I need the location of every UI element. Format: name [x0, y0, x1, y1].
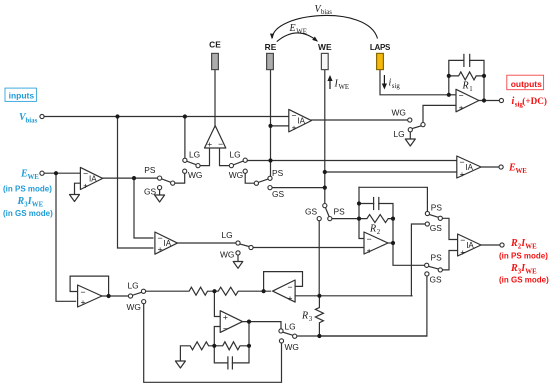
- svg-text:PS: PS: [144, 165, 156, 175]
- svg-text:LG: LG: [222, 230, 233, 240]
- svg-text:(in GS mode): (in GS mode): [3, 209, 53, 218]
- svg-text:−: −: [83, 169, 88, 179]
- svg-text:LG: LG: [285, 322, 296, 332]
- svg-text:LG: LG: [128, 280, 139, 290]
- svg-text:+: +: [80, 297, 85, 307]
- svg-text:LAPS: LAPS: [370, 43, 391, 52]
- svg-text:R: R: [462, 81, 469, 92]
- svg-text:LG: LG: [394, 129, 405, 139]
- svg-text:−: −: [459, 90, 464, 100]
- svg-text:(+DC): (+DC): [522, 96, 547, 106]
- svg-text:LG: LG: [189, 149, 200, 159]
- svg-text:LG: LG: [230, 149, 241, 159]
- svg-text:R: R: [301, 310, 308, 321]
- svg-text:IA: IA: [297, 117, 305, 126]
- svg-text:(in GS mode): (in GS mode): [499, 275, 549, 284]
- svg-text:−: −: [367, 234, 372, 244]
- svg-text:WE: WE: [318, 42, 332, 52]
- svg-text:WG: WG: [229, 170, 243, 180]
- svg-text:+: +: [291, 123, 296, 133]
- svg-text:PS: PS: [272, 168, 284, 178]
- svg-text:WE: WE: [525, 268, 537, 275]
- svg-text:R: R: [17, 196, 25, 207]
- svg-text:(in PS mode): (in PS mode): [499, 251, 548, 260]
- svg-text:−: −: [158, 233, 163, 243]
- svg-text:R: R: [510, 263, 518, 274]
- svg-text:−: −: [460, 235, 465, 245]
- svg-text:GS: GS: [305, 206, 318, 216]
- svg-text:WG: WG: [285, 342, 299, 352]
- svg-text:+: +: [287, 293, 292, 303]
- svg-text:outputs: outputs: [511, 79, 542, 89]
- svg-text:bias: bias: [26, 118, 38, 125]
- svg-text:bias: bias: [321, 9, 332, 16]
- svg-text:GS: GS: [430, 223, 443, 233]
- svg-text:+: +: [207, 139, 212, 149]
- svg-text:CE: CE: [209, 40, 221, 50]
- svg-text:(in PS mode): (in PS mode): [3, 184, 52, 193]
- svg-text:IA: IA: [465, 163, 473, 172]
- svg-text:sig: sig: [392, 83, 401, 90]
- svg-text:R: R: [369, 224, 376, 235]
- svg-text:inputs: inputs: [9, 91, 35, 101]
- svg-text:WE: WE: [32, 202, 44, 209]
- svg-text:WG: WG: [220, 249, 234, 259]
- svg-text:RE: RE: [265, 42, 277, 52]
- svg-text:PS: PS: [334, 206, 346, 216]
- svg-text:WE: WE: [296, 28, 307, 35]
- svg-text:WE: WE: [339, 84, 350, 91]
- svg-text:WG: WG: [392, 107, 406, 117]
- svg-text:IA: IA: [164, 239, 172, 248]
- svg-text:WG: WG: [188, 170, 202, 180]
- svg-text:E: E: [289, 23, 296, 34]
- svg-text:1: 1: [469, 86, 472, 93]
- svg-text:−: −: [223, 323, 228, 333]
- svg-text:WE: WE: [28, 174, 40, 181]
- svg-text:GS: GS: [272, 189, 285, 199]
- svg-text:WE: WE: [516, 168, 528, 175]
- svg-text:GS: GS: [430, 274, 443, 284]
- svg-text:GS: GS: [144, 187, 157, 197]
- svg-text:WG: WG: [127, 302, 141, 312]
- svg-text:+: +: [158, 244, 163, 254]
- svg-text:3: 3: [309, 316, 313, 323]
- svg-text:−: −: [218, 139, 223, 149]
- svg-text:+: +: [459, 169, 464, 179]
- svg-text:PS: PS: [431, 252, 443, 262]
- svg-text:+: +: [83, 181, 88, 191]
- svg-text:IA: IA: [89, 174, 97, 183]
- svg-text:+: +: [459, 102, 464, 112]
- svg-text:+: +: [460, 247, 465, 257]
- svg-text:−: −: [291, 111, 296, 121]
- svg-text:PS: PS: [431, 203, 443, 213]
- svg-text:IA: IA: [466, 241, 474, 250]
- svg-text:+: +: [367, 245, 372, 255]
- svg-text:2: 2: [377, 229, 381, 236]
- svg-text:+: +: [223, 312, 228, 322]
- svg-text:−: −: [459, 157, 464, 167]
- svg-text:R: R: [510, 238, 518, 249]
- svg-text:−: −: [287, 282, 292, 292]
- svg-text:WE: WE: [525, 244, 537, 251]
- svg-text:−: −: [80, 287, 85, 297]
